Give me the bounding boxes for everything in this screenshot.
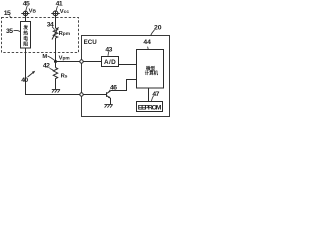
svg-text:热: 热 — [23, 30, 28, 37]
svg-text:47: 47 — [152, 91, 159, 98]
text labels — [4, 1, 162, 112]
svg-text:计算机: 计算机 — [145, 70, 159, 77]
svg-text:ECU: ECU — [84, 39, 98, 46]
svg-text:15: 15 — [4, 10, 11, 17]
connector circle upper (ECU boundary) — [80, 60, 83, 63]
node M junction dot — [54, 60, 57, 63]
svg-text:46: 46 — [110, 85, 117, 92]
leader 47 — [151, 96, 153, 101]
svg-text:45: 45 — [23, 1, 30, 8]
microcomputer box 44 — [137, 50, 164, 89]
leader 46 — [108, 90, 110, 92]
svg-text:发: 发 — [22, 24, 28, 31]
svg-text:EEPROM: EEPROM — [138, 105, 162, 112]
heating resistor box 35 — [21, 22, 31, 49]
collector wire to microcomputer — [111, 80, 137, 91]
leader 15 — [10, 16, 12, 19]
connector circle lower (ECU boundary) — [80, 93, 83, 96]
arrow 40 — [28, 72, 35, 77]
svg-text:Vpm: Vpm — [59, 55, 70, 61]
ground (emitter) — [104, 105, 112, 108]
svg-text:44: 44 — [143, 39, 151, 46]
svg-text:43: 43 — [105, 46, 112, 53]
svg-text:42: 42 — [43, 62, 50, 69]
ECU box 20 — [82, 36, 170, 117]
emitter wire to ground — [110, 98, 112, 105]
wire A/D to microcomputer — [119, 64, 137, 66]
leader M — [48, 56, 55, 60]
A/D converter box 43 — [102, 57, 119, 67]
wire Rpm to node M — [55, 38, 57, 62]
svg-text:Rs: Rs — [61, 73, 68, 79]
leader 44 — [147, 47, 150, 50]
svg-text:阻: 阻 — [23, 40, 28, 47]
leader 42 — [50, 68, 54, 70]
transistor collector — [107, 91, 111, 94]
transistor Q46 base bar — [106, 92, 108, 97]
wire node M to A/D — [56, 61, 102, 63]
leader 20 — [151, 30, 155, 36]
svg-text:35: 35 — [6, 28, 13, 35]
svg-text:40: 40 — [21, 77, 28, 84]
svg-text:20: 20 — [154, 24, 162, 31]
bus microcomputer to EEPROM — [148, 88, 150, 102]
svg-text:Vcc: Vcc — [60, 9, 70, 15]
transistor emitter with arrow — [107, 96, 111, 98]
svg-text:34: 34 — [47, 22, 54, 29]
svg-text:Rpm: Rpm — [59, 31, 70, 37]
dashed box 15 (sensor unit) — [2, 18, 79, 53]
leader 34 — [52, 27, 55, 30]
leader 41 — [56, 6, 57, 11]
terminal Vcc — [53, 11, 58, 16]
wire Vcc to Rpm — [55, 16, 57, 28]
leader 43 — [107, 52, 110, 56]
resistor Rpm (variable) — [53, 28, 57, 38]
svg-text:A/D: A/D — [104, 59, 116, 66]
svg-text:VB: VB — [29, 8, 37, 14]
terminal VB — [23, 11, 27, 15]
leader 45 — [26, 6, 27, 11]
wire VB to heating resistor — [25, 16, 27, 22]
svg-text:41: 41 — [56, 1, 63, 8]
arrow across Rpm — [52, 27, 58, 39]
wire Rs to ground — [55, 80, 57, 90]
svg-text:M: M — [42, 54, 47, 60]
ground (sensor) — [52, 90, 60, 93]
resistor Rs — [53, 68, 57, 81]
leader 35 — [14, 30, 21, 31]
EEPROM box 47 — [137, 102, 163, 112]
wire node M to Rs — [55, 62, 57, 68]
wire heating resistor down and to transistor base — [26, 48, 107, 95]
svg-text:电: 电 — [23, 35, 28, 42]
